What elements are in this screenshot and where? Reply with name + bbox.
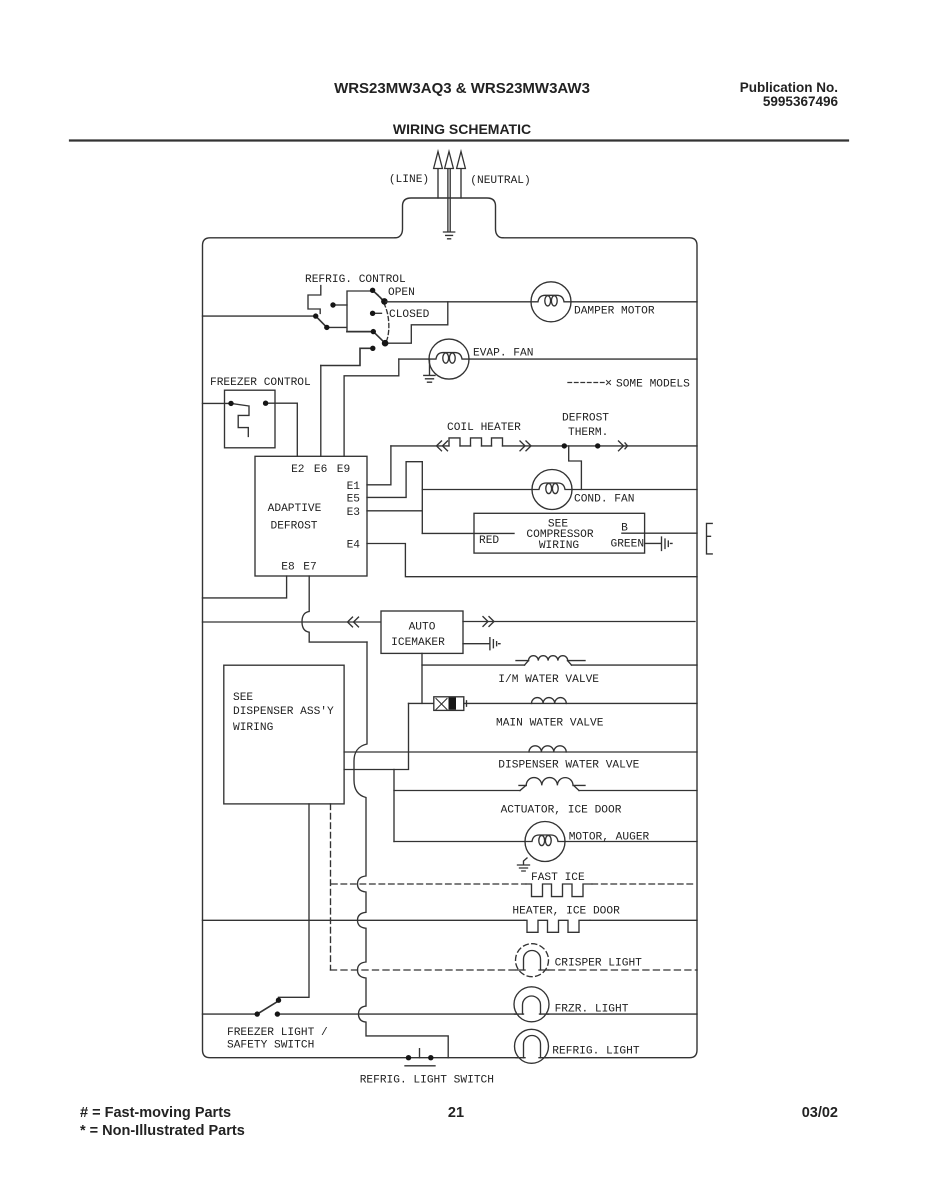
svg-text:E6: E6 <box>314 464 327 476</box>
svg-text:EVAP. FAN: EVAP. FAN <box>473 348 533 360</box>
svg-text:FRZR. LIGHT: FRZR. LIGHT <box>555 1003 629 1015</box>
svg-text:WIRING: WIRING <box>233 722 274 734</box>
svg-text:FAST ICE: FAST ICE <box>531 872 585 884</box>
svg-text:COMPRESSOR: COMPRESSOR <box>526 529 593 541</box>
svg-text:REFRIG. LIGHT SWITCH: REFRIG. LIGHT SWITCH <box>360 1074 494 1086</box>
svg-text:COIL HEATER: COIL HEATER <box>447 422 521 434</box>
svg-text:DISPENSER WATER VALVE: DISPENSER WATER VALVE <box>498 760 639 772</box>
svg-text:E1: E1 <box>347 481 361 493</box>
svg-text:REFRIG. CONTROL: REFRIG. CONTROL <box>305 274 406 286</box>
svg-text:SOME MODELS: SOME MODELS <box>616 379 690 391</box>
svg-text:WRS23MW3AQ3 & WRS23MW3AW3: WRS23MW3AQ3 & WRS23MW3AW3 <box>334 80 590 97</box>
svg-text:(NEUTRAL): (NEUTRAL) <box>470 175 530 187</box>
svg-text:03/02: 03/02 <box>802 1105 838 1121</box>
svg-text:E3: E3 <box>347 507 360 519</box>
svg-text:DEFROST: DEFROST <box>271 521 318 533</box>
svg-text:DEFROST: DEFROST <box>562 412 609 424</box>
svg-text:WIRING: WIRING <box>539 540 580 552</box>
svg-text:* = Non-Illustrated Parts: * = Non-Illustrated Parts <box>80 1123 245 1139</box>
svg-text:MOTOR, AUGER: MOTOR, AUGER <box>569 831 650 843</box>
svg-text:FREEZER CONTROL: FREEZER CONTROL <box>210 377 311 389</box>
svg-text:AUTO: AUTO <box>409 622 436 634</box>
svg-text:MAIN WATER VALVE: MAIN WATER VALVE <box>496 717 604 729</box>
svg-text:E4: E4 <box>347 540 361 552</box>
svg-text:E2: E2 <box>291 464 304 476</box>
svg-text:ADAPTIVE: ADAPTIVE <box>268 503 322 515</box>
svg-text:CLOSED: CLOSED <box>389 309 430 321</box>
svg-text:SAFETY SWITCH: SAFETY SWITCH <box>227 1040 314 1052</box>
svg-text:WIRING SCHEMATIC: WIRING SCHEMATIC <box>393 121 531 137</box>
svg-text:E7: E7 <box>303 562 316 574</box>
svg-text:Publication No.: Publication No. <box>740 80 838 95</box>
svg-text:I/M WATER VALVE: I/M WATER VALVE <box>498 674 599 686</box>
svg-text:CRISPER LIGHT: CRISPER LIGHT <box>555 957 643 969</box>
svg-text:E9: E9 <box>337 464 350 476</box>
svg-text:21: 21 <box>448 1105 464 1121</box>
svg-text:# = Fast-moving Parts: # = Fast-moving Parts <box>80 1105 231 1121</box>
svg-text:(LINE): (LINE) <box>389 174 429 186</box>
svg-text:E8: E8 <box>281 562 294 574</box>
svg-text:SEE: SEE <box>233 692 253 704</box>
svg-text:THERM.: THERM. <box>568 427 608 439</box>
svg-text:DAMPER MOTOR: DAMPER MOTOR <box>574 306 655 318</box>
svg-text:5995367496: 5995367496 <box>763 94 839 109</box>
svg-text:FREEZER LIGHT /: FREEZER LIGHT / <box>227 1027 328 1039</box>
svg-text:ICEMAKER: ICEMAKER <box>391 637 445 649</box>
svg-text:REFRIG. LIGHT: REFRIG. LIGHT <box>552 1046 640 1058</box>
svg-text:ACTUATOR, ICE DOOR: ACTUATOR, ICE DOOR <box>501 804 622 816</box>
svg-text:OPEN: OPEN <box>388 287 415 299</box>
svg-text:DISPENSER ASS'Y: DISPENSER ASS'Y <box>233 706 334 718</box>
svg-text:COND. FAN: COND. FAN <box>574 494 634 506</box>
svg-text:E5: E5 <box>347 494 360 506</box>
svg-text:GREEN: GREEN <box>611 538 645 550</box>
svg-text:HEATER, ICE DOOR: HEATER, ICE DOOR <box>512 906 620 918</box>
svg-text:RED: RED <box>479 535 499 547</box>
